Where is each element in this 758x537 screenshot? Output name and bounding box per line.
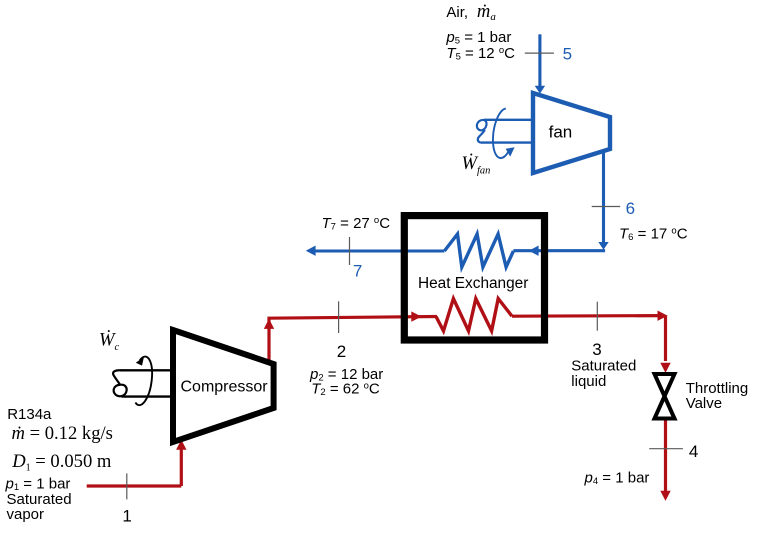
- svg-text:Valve: Valve: [686, 395, 722, 412]
- arrowhead: red down at state 4 outlet: [660, 491, 670, 501]
- shaft break squiggle (fan): [477, 120, 487, 143]
- tick: state point 5: [525, 52, 554, 54]
- svg-text:Compressor: Compressor: [181, 378, 269, 395]
- tick: state point 2: [338, 301, 340, 333]
- svg-text:1: 1: [122, 506, 131, 525]
- tick: state point 3: [596, 302, 598, 331]
- tick: state point 7: [349, 237, 351, 265]
- wire: red line heat exchanger to throttling valve (state 3): [512, 316, 666, 361]
- arrowhead: red right at corner before valve: [658, 311, 668, 321]
- compressor body: [173, 330, 274, 442]
- wire: red refrigerant line state 1 into compressor: [87, 449, 182, 486]
- rotation arrow (compressor shaft): [135, 357, 152, 406]
- svg-text:R134a: R134a: [7, 406, 52, 423]
- svg-text:3: 3: [592, 340, 601, 359]
- svg-text:fan: fan: [549, 123, 573, 142]
- throttling valve TV: [655, 374, 675, 419]
- fan body: [533, 93, 610, 173]
- svg-text:2: 2: [337, 342, 346, 361]
- wire: red line compressor outlet to heat exchanger (state 2): [267, 317, 437, 364]
- svg-text:7: 7: [353, 262, 362, 281]
- wire: blue air inlet line state 5: [538, 34, 541, 86]
- svg-text:vapor: vapor: [7, 506, 45, 523]
- arrowhead: red up at corner above compressor: [264, 319, 274, 329]
- arrowhead: red right entering heat exchanger: [411, 311, 421, 321]
- svg-text:ṁ = 0.12 kg/s: ṁ = 0.12 kg/s: [12, 423, 113, 444]
- svg-text:Heat Exchanger: Heat Exchanger: [418, 275, 528, 292]
- heat exchanger box HX: [404, 216, 544, 340]
- svg-text:5: 5: [563, 45, 572, 64]
- tick: state point 4: [649, 448, 683, 450]
- wire: blue air outlet line state 7: [315, 249, 445, 252]
- arrowhead: blue down into fan at state 5: [535, 86, 545, 94]
- svg-text:4: 4: [689, 442, 698, 461]
- arrowhead: blue left at state 7 outlet: [306, 246, 316, 256]
- tick: state point 6: [592, 206, 621, 208]
- wire: red line valve outlet state 4: [664, 419, 667, 491]
- arrowhead: red up into compressor at state 1: [176, 440, 186, 450]
- coil: red refrigerant coil inside heat exchanger: [436, 299, 512, 331]
- coil: blue air coil inside heat exchanger: [444, 234, 513, 267]
- arrowhead: blue down at corner below fan: [598, 242, 608, 250]
- tick: state point 1: [126, 473, 128, 499]
- svg-text:6: 6: [626, 199, 635, 218]
- svg-text:Air, ṁa: Air, ṁa: [446, 1, 496, 23]
- shaft break squiggle (compressor): [113, 370, 127, 396]
- svg-text:liquid: liquid: [571, 373, 606, 390]
- shaft: fan drive shaft: [481, 120, 532, 143]
- arrowhead: blue left pointing into coil inside heat exchanger: [529, 246, 539, 256]
- rotation arrow (fan shaft): [493, 109, 510, 159]
- arrowhead: red down into throttling valve: [660, 363, 670, 373]
- wire: blue line fan to heat exchanger (state 6): [513, 150, 605, 251]
- shaft: compressor drive shaft: [120, 370, 171, 396]
